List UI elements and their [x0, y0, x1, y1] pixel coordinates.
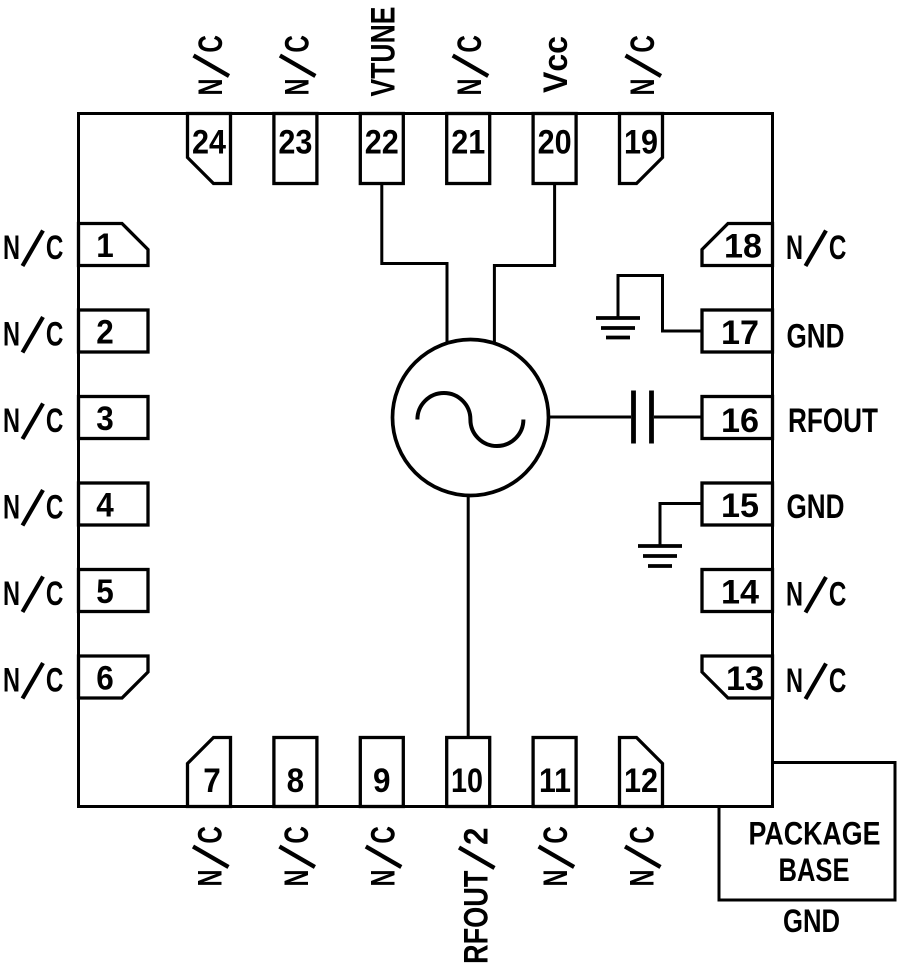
ground G2 (pin 15): [638, 546, 682, 566]
wire pin22 to oscillator: [382, 184, 447, 344]
pin 20: [533, 114, 576, 184]
svg-text:24: 24: [192, 124, 226, 162]
svg-text:1: 1: [96, 227, 114, 265]
pin 3: [79, 397, 149, 439]
svg-text:14: 14: [721, 574, 759, 612]
svg-text:18: 18: [724, 228, 762, 266]
svg-text:VTUNE: VTUNE: [364, 7, 402, 97]
svg-text:RFOUT: RFOUT: [458, 871, 496, 965]
pin 12: [620, 738, 663, 807]
pin numbers right column: [721, 228, 764, 699]
pin 22: [360, 114, 403, 184]
wire oscillator bottom to pin10: [467, 494, 470, 738]
pin 7: [188, 738, 231, 807]
bottom row net labels (rotated): [192, 826, 662, 964]
pin numbers bottom row: [203, 762, 658, 800]
svg-text:BASE: BASE: [779, 852, 850, 888]
oscillator U1 circle: [393, 340, 549, 496]
wire capacitor to pin16: [654, 416, 702, 419]
label N/C pin3: [3, 402, 63, 440]
label N/C pin14: [786, 576, 846, 614]
svg-text:11: 11: [539, 762, 571, 800]
pin numbers top row: [192, 124, 658, 162]
oscillator sine wave: [417, 393, 523, 446]
pin 6: [79, 656, 149, 698]
pin 9: [360, 738, 403, 807]
svg-text:Vcc: Vcc: [537, 36, 575, 93]
label N/C pin5: [3, 575, 63, 613]
pin 18: [702, 224, 773, 266]
pin 4: [79, 483, 149, 525]
left column net labels: [3, 229, 63, 700]
wire oscillator right to capacitor: [547, 416, 631, 419]
svg-text:GND: GND: [783, 903, 840, 939]
pin 14: [702, 570, 773, 612]
label RFOUT/2 pin10: [458, 828, 496, 965]
pin 15: [702, 483, 773, 525]
label N/C pin18: [786, 229, 846, 267]
pin 16: [702, 397, 773, 439]
svg-text:2: 2: [96, 314, 114, 352]
svg-text:22: 22: [365, 124, 399, 162]
pin 5: [79, 570, 149, 612]
svg-text:7: 7: [203, 762, 221, 800]
svg-text:10: 10: [451, 762, 483, 800]
label N/C pin9: [364, 826, 402, 886]
right column net labels: [786, 229, 878, 700]
svg-text:19: 19: [624, 124, 658, 162]
svg-text:GND: GND: [787, 488, 845, 526]
ground G1 (pin 17): [596, 318, 640, 338]
svg-text:3: 3: [96, 400, 114, 438]
wire pin15 to ground G2: [660, 504, 702, 545]
label N/C pin21: [451, 35, 489, 95]
pin 21: [447, 114, 490, 184]
svg-text:RFOUT: RFOUT: [788, 402, 878, 440]
pin numbers left column: [96, 227, 114, 698]
svg-text:PACKAGE: PACKAGE: [749, 816, 881, 852]
label N/C pin6: [3, 662, 63, 700]
svg-text:5: 5: [96, 573, 114, 611]
pin 23: [274, 114, 317, 184]
svg-text:15: 15: [721, 487, 759, 525]
svg-text:4: 4: [96, 487, 114, 525]
svg-text:20: 20: [538, 124, 572, 162]
svg-text:9: 9: [373, 762, 391, 800]
svg-text:2: 2: [458, 828, 496, 846]
label N/C pin8: [278, 826, 316, 886]
label N/C pin11: [537, 826, 575, 886]
svg-text:17: 17: [721, 314, 759, 352]
package outline: [79, 114, 773, 807]
package base GND pad box: [719, 763, 895, 901]
svg-text:21: 21: [451, 124, 485, 162]
wire pin20 to oscillator: [494, 184, 554, 344]
pin 24: [188, 114, 231, 184]
wire pin17 to ground G1: [618, 276, 702, 332]
pin 2: [79, 310, 149, 352]
svg-text:23: 23: [278, 124, 312, 162]
label N/C pin24: [192, 35, 230, 95]
pin 13: [702, 656, 773, 698]
svg-text:16: 16: [721, 402, 759, 440]
label N/C pin19: [624, 35, 662, 95]
package base pad labels: [749, 816, 881, 940]
pin 11: [533, 738, 576, 807]
pin 10: [447, 738, 490, 807]
svg-text:13: 13: [726, 660, 764, 698]
svg-text:GND: GND: [787, 318, 845, 356]
label N/C pin7: [192, 826, 230, 886]
svg-text:6: 6: [96, 660, 114, 698]
label N/C pin13: [786, 662, 846, 700]
label N/C pin2: [3, 316, 63, 354]
top row net labels (rotated): [192, 7, 662, 97]
pin 19: [620, 114, 663, 184]
pin 17: [702, 310, 773, 352]
svg-text:12: 12: [624, 762, 658, 800]
label N/C pin12: [624, 826, 662, 886]
svg-text:8: 8: [287, 762, 305, 800]
label N/C pin4: [3, 489, 63, 527]
label N/C pin23: [278, 35, 316, 95]
pin 1: [79, 224, 149, 266]
capacitor C1 plates: [634, 391, 652, 444]
pin 8: [274, 738, 317, 807]
label N/C pin1: [3, 229, 63, 267]
